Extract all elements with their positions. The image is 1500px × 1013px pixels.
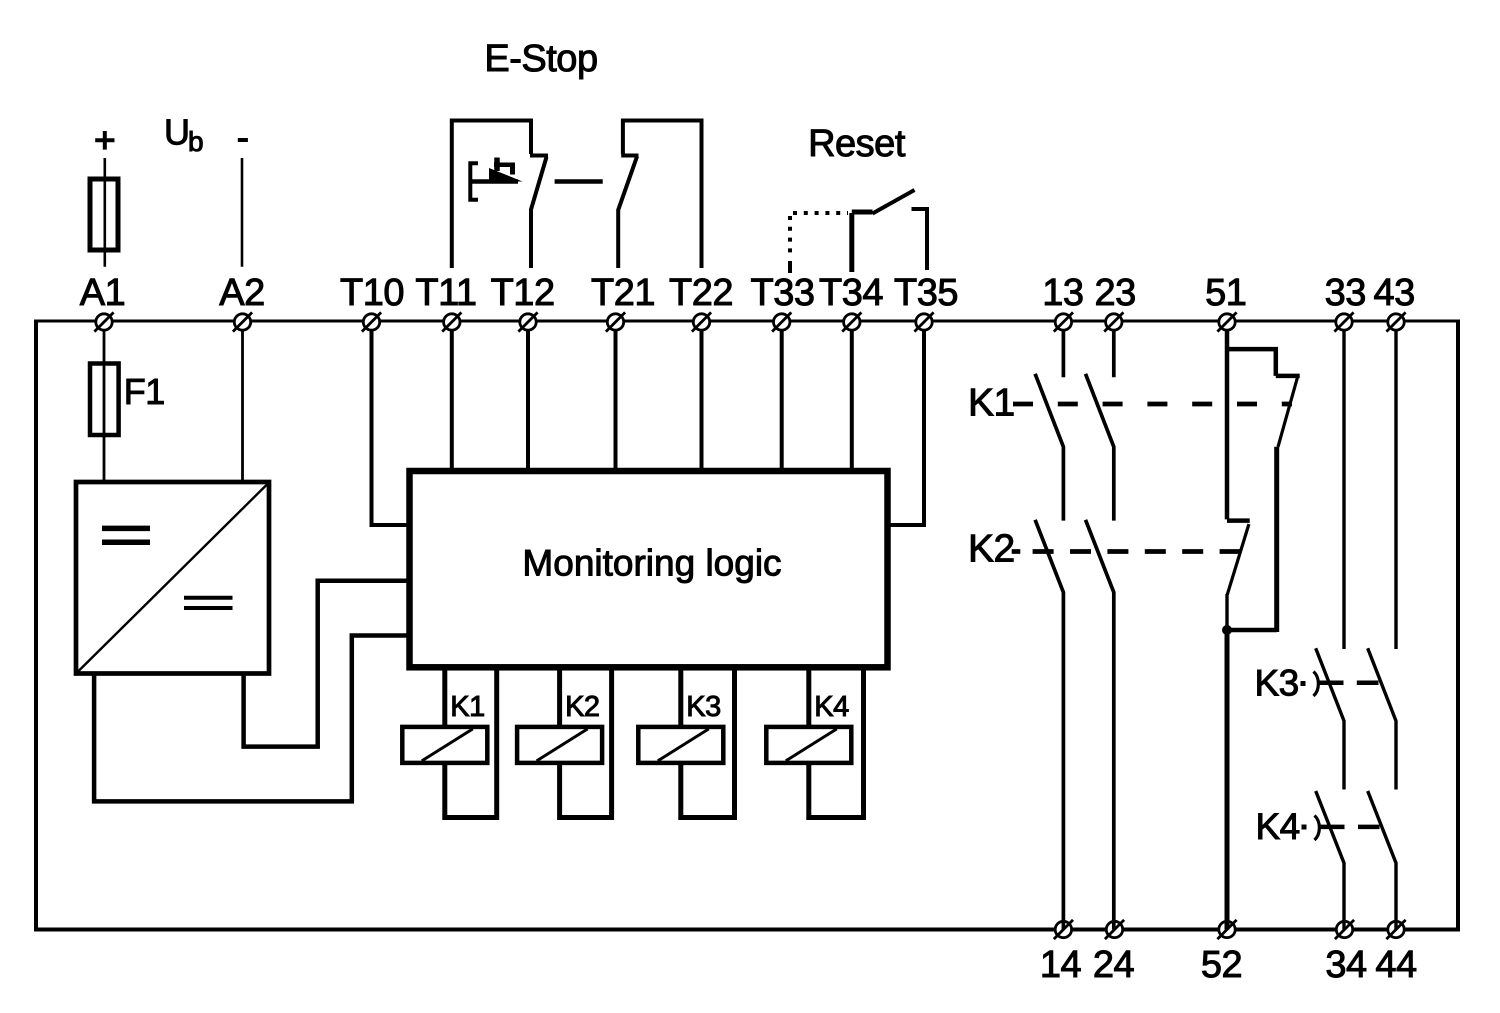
- svg-text:K1: K1: [968, 382, 1015, 425]
- svg-text:13: 13: [1042, 272, 1083, 314]
- svg-text:Reset: Reset: [808, 123, 906, 165]
- svg-text:51: 51: [1205, 272, 1246, 314]
- svg-text:U: U: [164, 112, 190, 153]
- svg-text:b: b: [188, 126, 203, 157]
- svg-text:44: 44: [1375, 944, 1417, 986]
- svg-text:K3: K3: [1255, 662, 1299, 703]
- svg-text:F1: F1: [124, 371, 165, 412]
- svg-text:T22: T22: [669, 272, 733, 314]
- svg-text:K4: K4: [1256, 806, 1300, 847]
- svg-text:K2: K2: [565, 691, 599, 723]
- svg-text:A1: A1: [80, 272, 125, 314]
- svg-text:33: 33: [1325, 272, 1366, 314]
- svg-text:T11: T11: [415, 272, 476, 314]
- svg-text:23: 23: [1094, 272, 1135, 314]
- svg-text:K4: K4: [814, 691, 849, 723]
- svg-text:T35: T35: [894, 272, 958, 314]
- svg-text:43: 43: [1374, 272, 1415, 314]
- svg-text:24: 24: [1093, 944, 1135, 986]
- svg-text:A2: A2: [219, 272, 264, 314]
- svg-text:52: 52: [1201, 944, 1242, 986]
- svg-text:T21: T21: [591, 272, 655, 314]
- svg-text:K2: K2: [968, 528, 1015, 571]
- svg-text:T33: T33: [751, 272, 815, 314]
- svg-text:T12: T12: [491, 272, 555, 314]
- svg-text:K1: K1: [450, 691, 484, 723]
- svg-text:T34: T34: [819, 272, 883, 314]
- svg-text:T10: T10: [340, 272, 404, 314]
- svg-text:K3: K3: [686, 691, 720, 723]
- svg-text:E-Stop: E-Stop: [484, 38, 597, 80]
- svg-text:14: 14: [1040, 944, 1082, 986]
- svg-text:34: 34: [1325, 944, 1367, 986]
- svg-text:Monitoring logic: Monitoring logic: [522, 543, 781, 584]
